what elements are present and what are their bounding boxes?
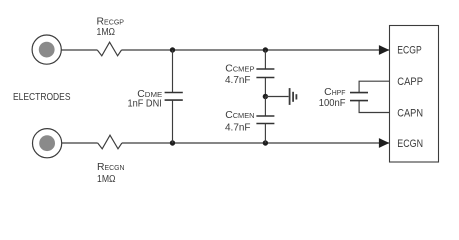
svg-text:CHPF: CHPF (324, 87, 346, 98)
wire CCMEN lower lead (264, 124, 266, 143)
electrode J2 (bottom) (33, 129, 62, 158)
label RECGN value (97, 162, 125, 185)
junction dot bottom wire / CCMEN (263, 140, 268, 145)
junction dot bottom wire / CDME (170, 140, 175, 145)
resistor RECGN (98, 135, 122, 149)
svg-text:CCMEP: CCMEP (225, 64, 254, 75)
svg-text:1nF DNI: 1nF DNI (128, 98, 162, 109)
svg-text:ECGP: ECGP (397, 45, 421, 57)
svg-text:4.7nF: 4.7nF (225, 75, 251, 86)
svg-text:RECGP: RECGP (97, 17, 125, 28)
resistor RECGP (97, 42, 121, 56)
wire top: electrode J1 to resistor R_ECGP (61, 49, 97, 51)
wire CHPF to CAPN pin (359, 101, 389, 113)
wire CAPP pin to CHPF (359, 81, 389, 92)
wire CCMEP upper lead (264, 50, 266, 69)
capacitor CCMEN (256, 116, 274, 124)
arrow into ECGP pin (379, 45, 390, 55)
svg-text:CAPN: CAPN (397, 107, 423, 119)
wire CCMEP lower lead to mid node (264, 78, 266, 97)
wire bottom: electrode J2 to resistor R_ECGN (62, 142, 98, 144)
label CHPF value (319, 87, 346, 109)
svg-text:CAPP: CAPP (397, 76, 423, 88)
label CCMEP value (225, 64, 255, 86)
op-amp U1 block (390, 26, 439, 163)
svg-text:ELECTRODES: ELECTRODES (13, 92, 71, 103)
wire mid node to ground (265, 96, 288, 98)
wire CDME upper lead (172, 50, 174, 92)
capacitor CHPF (350, 93, 368, 101)
ground (290, 88, 297, 105)
svg-text:RECGN: RECGN (97, 162, 125, 173)
junction dot mid node (263, 94, 268, 99)
wire CDME lower lead (172, 100, 174, 143)
capacitor CDME (165, 93, 183, 101)
svg-text:100nF: 100nF (319, 98, 346, 109)
electrode J1 (top) (32, 35, 61, 64)
svg-text:4.7nF: 4.7nF (225, 122, 251, 133)
arrow into ECGN pin (379, 138, 390, 148)
wire top: resistor to IC block (122, 49, 390, 51)
svg-text:1MΩ: 1MΩ (97, 174, 116, 185)
label RECGP value (97, 17, 125, 38)
wire bottom: resistor to IC block (122, 142, 389, 144)
label CDME value (128, 89, 163, 110)
junction dot top wire / CCMEP (263, 47, 268, 52)
junction dot top wire / CDME (170, 47, 175, 52)
svg-text:CCMEN: CCMEN (225, 110, 254, 121)
svg-text:ECGN: ECGN (397, 138, 423, 150)
label CCMEN value (225, 110, 255, 133)
wire mid node to CCMEN (264, 97, 266, 116)
svg-text:1MΩ: 1MΩ (97, 27, 116, 38)
capacitor CCMEP (256, 69, 274, 78)
